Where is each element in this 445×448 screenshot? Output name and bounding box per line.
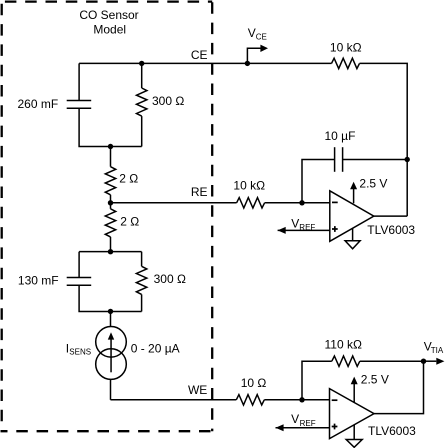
arrowhead 2.5V U1: [350, 182, 357, 190]
sensor model dashed box: [1, 2, 213, 432]
resistor 10ohm WE: [236, 395, 264, 405]
resistor 10k RE: [237, 198, 265, 208]
op-amp U1 minus sign: [332, 201, 338, 203]
svg-text:SENS: SENS: [69, 348, 91, 357]
wire RE to op-amp U1 inverting input: [265, 202, 330, 204]
VTIA arrow line: [424, 360, 437, 362]
wire top-left subcircuit left rail upper: [78, 63, 80, 100]
ground symbol U1: [345, 241, 360, 249]
arrowhead VTIA: [436, 358, 444, 365]
junction node VCE tap: [245, 61, 250, 66]
svg-text:300 Ω: 300 Ω: [154, 272, 186, 286]
op-amp U2 supply stem 2.5V: [353, 384, 355, 403]
wire resistor 2ohm lower branch: [110, 203, 112, 209]
wire bottom subcircuit left rail lower: [79, 285, 142, 311]
wire 300ohm bottom branch lower: [141, 294, 143, 311]
wire 300ohm top branch upper: [141, 63, 143, 88]
svg-text:CO Sensor: CO Sensor: [79, 8, 138, 22]
wire 300ohm top branch lower: [141, 116, 143, 146]
wire current source to WE net: [110, 379, 112, 399]
svg-text:Model: Model: [93, 23, 126, 37]
resistor 2ohm upper: [105, 167, 115, 195]
wire op-amp U1 output: [374, 215, 407, 217]
op-amp U2 triangle: [330, 389, 375, 439]
junction node top subcircuit bottom: [108, 144, 113, 149]
svg-text:110 kΩ: 110 kΩ: [325, 338, 362, 352]
wire middle rail to 2ohm-1: [110, 147, 112, 167]
resistor 2ohm lower: [105, 209, 115, 237]
svg-text:TLV6003: TLV6003: [367, 223, 415, 237]
svg-text:2.5 V: 2.5 V: [359, 177, 387, 191]
op-amp U1 plus sign: [332, 226, 338, 232]
current source ISENS circle upper: [96, 327, 127, 358]
junction node CE/300ohm: [139, 61, 144, 66]
wire top-left subcircuit left rail lower: [79, 108, 142, 146]
junction node bottom subcircuit top: [108, 249, 113, 254]
resistor 300ohm bottom: [136, 266, 146, 294]
wire bottom subcircuit top: [79, 251, 142, 253]
svg-text:V: V: [248, 26, 256, 40]
svg-text:CE: CE: [191, 48, 208, 62]
wire CE to right rail: [360, 63, 408, 216]
wire 10uF to right rail: [343, 159, 408, 161]
op-amp U1 ground stem: [352, 228, 354, 240]
op-amp U2 minus sign: [332, 399, 338, 401]
current source ISENS circle lower: [96, 349, 127, 380]
svg-text:V: V: [291, 412, 299, 426]
current source arrow stem: [110, 339, 112, 373]
junction node 10uF right: [405, 157, 410, 162]
wire RE net: [111, 202, 237, 204]
wire feedback U2 left leg: [302, 361, 332, 400]
svg-text:10 Ω: 10 Ω: [241, 376, 267, 390]
svg-text:WE: WE: [188, 383, 207, 397]
wire VTIA node down to op-amp U2 output: [374, 361, 424, 413]
ground symbol U2: [346, 440, 362, 448]
svg-text:10 kΩ: 10 kΩ: [330, 40, 362, 54]
op-amp U1 triangle: [330, 191, 374, 242]
arrowhead Vref U2: [276, 424, 284, 431]
svg-text:130 mF: 130 mF: [18, 273, 59, 287]
capacitor 260mF plates: [67, 100, 92, 102]
op-amp U2 ground stem: [353, 425, 355, 439]
junction node RE: [108, 200, 113, 205]
resistor 300ohm top: [137, 88, 147, 116]
wire to RE node: [110, 195, 112, 203]
wire 300ohm bottom branch upper: [141, 252, 143, 267]
svg-text:10 kΩ: 10 kΩ: [233, 179, 265, 193]
junction node bottom subcircuit bottom: [108, 309, 113, 314]
svg-text:REF: REF: [299, 223, 315, 232]
arrowhead Vref U1: [278, 227, 286, 234]
capacitor 10uF plates: [334, 147, 336, 172]
current source arrowhead: [108, 332, 114, 339]
svg-text:2.5 V: 2.5 V: [361, 372, 389, 386]
svg-text:0 - 20 µA: 0 - 20 µA: [131, 341, 180, 355]
VCE tap stem: [247, 48, 260, 63]
op-amp U2 plus sign: [332, 424, 338, 430]
arrowhead VCE: [260, 45, 268, 52]
resistor 10k CE: [332, 58, 360, 68]
svg-text:2 Ω: 2 Ω: [119, 172, 138, 186]
op-amp U1 supply stem 2.5V: [353, 189, 355, 203]
wire Vref U1 line: [278, 229, 330, 231]
junction node WE/feedback: [299, 397, 304, 402]
wire bottom subcircuit left rail upper: [78, 252, 80, 278]
junction node RE/feedback: [299, 200, 304, 205]
wire Vref U2 line: [276, 427, 330, 429]
svg-text:2 Ω: 2 Ω: [120, 214, 139, 228]
wire 110k to VTIA node: [360, 360, 424, 362]
wire to bottom subcircuit: [110, 237, 112, 252]
wire to current source: [110, 311, 112, 326]
svg-text:10 µF: 10 µF: [325, 129, 356, 143]
resistor 110k feedback: [332, 356, 360, 366]
svg-text:RE: RE: [191, 185, 208, 199]
svg-text:CE: CE: [256, 32, 267, 41]
wire CE net horizontal: [79, 62, 331, 64]
svg-text:REF: REF: [300, 419, 316, 428]
wire feedback node up to 10uF level: [302, 160, 335, 203]
svg-text:V: V: [291, 216, 299, 230]
svg-text:300 Ω: 300 Ω: [152, 94, 184, 108]
capacitor 130mF plates: [67, 277, 92, 279]
svg-text:260 mF: 260 mF: [18, 97, 59, 111]
svg-text:TLV6003: TLV6003: [368, 424, 416, 438]
wire WE net: [111, 399, 237, 401]
arrowhead 2.5V U2: [351, 377, 358, 385]
svg-text:TIA: TIA: [431, 346, 444, 355]
wire WE to op-amp U2 inverting input: [264, 399, 329, 401]
junction node VTIA: [421, 359, 426, 364]
